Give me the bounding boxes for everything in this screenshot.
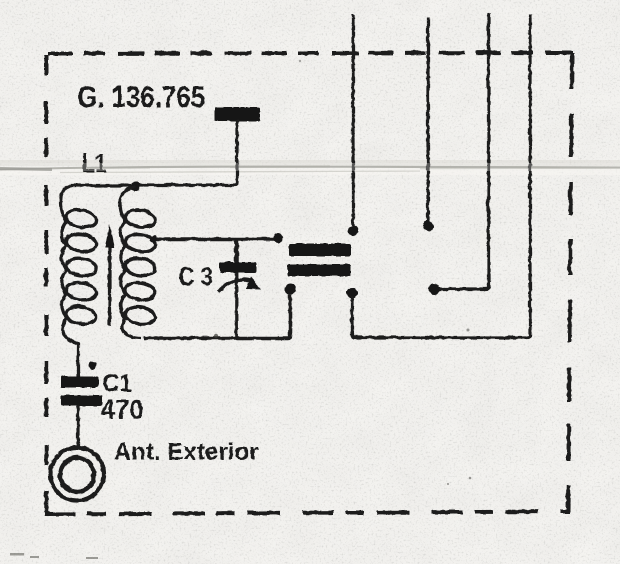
wire from node down right and up (wire 4) — [352, 14, 530, 337]
node junction L1 top — [130, 181, 140, 191]
gang capacitor plate lower — [287, 264, 350, 276]
wire left winding to C1 — [76, 341, 79, 376]
inductor L1 right winding — [119, 186, 156, 338]
capacitor C1 plate 1 — [61, 376, 99, 388]
svg-text:Ant. Exterior: Ant. Exterior — [113, 438, 258, 465]
node end of wire 2 — [422, 220, 433, 231]
svg-text:C 3: C 3 — [178, 261, 212, 291]
core adjust arrow between windings — [104, 223, 113, 325]
wire vertical 3 with left stub — [437, 12, 488, 289]
capacitor C3 bottom lead — [234, 272, 237, 338]
dashed enclosure border left — [44, 54, 48, 513]
inductor L1 left winding — [60, 186, 97, 343]
stray ink specks — [214, 60, 472, 485]
node dot at winding tap — [149, 235, 156, 242]
wire from antenna plate down and left to L1 — [135, 119, 237, 185]
scan specks bottom left — [10, 553, 98, 559]
capacitor C3 top lead — [234, 238, 239, 263]
paper fold crease — [0, 160, 620, 175]
dashed enclosure border bottom — [44, 511, 566, 514]
capacitor C1 plate 2 — [61, 395, 102, 406]
wire L1 tap to node — [153, 237, 276, 241]
node under gang left — [284, 283, 295, 294]
wire vertical 2 — [426, 17, 429, 221]
node end of wire 1 — [348, 225, 358, 235]
node dot beside C1 — [88, 361, 96, 369]
node terminal right of tap — [273, 233, 283, 243]
wire vertical 1 top — [351, 14, 354, 226]
wire bottom of right winding to gang node — [143, 294, 290, 338]
crease fade over ink — [0, 163, 620, 171]
labels — [77, 79, 259, 466]
gang capacitor plate upper — [288, 243, 350, 256]
Ant. Exterior terminal outer ring — [50, 447, 103, 500]
wire L1 top lead — [71, 183, 135, 186]
dashed enclosure border top — [47, 52, 572, 53]
node start of return wire — [346, 287, 357, 298]
dashed enclosure border right — [568, 52, 572, 513]
svg-text:470: 470 — [100, 393, 143, 424]
node end of wire 3 — [428, 283, 439, 294]
Ant. Exterior terminal inner ring — [60, 457, 94, 491]
wire C1 to terminal — [76, 405, 79, 449]
svg-text:G. 136.765: G. 136.765 — [77, 79, 205, 114]
svg-text:L1: L1 — [81, 148, 106, 178]
antenna plate terminal — [214, 107, 259, 121]
capacitor C3 variable arc arrow — [217, 277, 261, 292]
capacitor C3 plate — [219, 262, 256, 273]
